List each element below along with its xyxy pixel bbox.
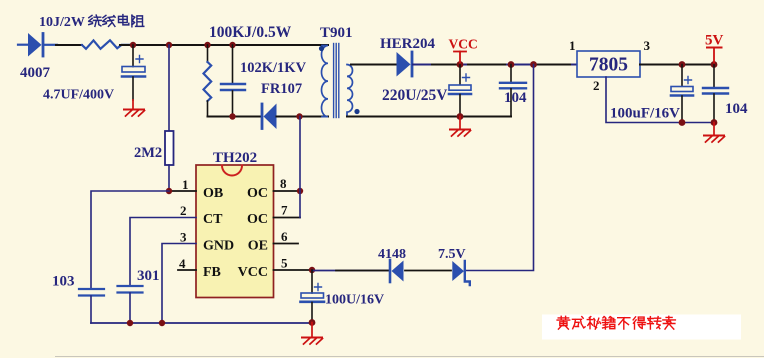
wire pin5 to D4	[312, 270, 389, 272]
wire snubber bottom rail	[208, 116, 262, 118]
ground (C3)	[450, 117, 471, 137]
wire D3 cathode to VCC rail	[413, 64, 577, 66]
svg-text:GND: GND	[203, 239, 234, 254]
IC U1 TH202	[196, 165, 274, 298]
capacitor C6 104	[703, 88, 728, 94]
svg-text:301: 301	[137, 268, 160, 284]
T901 secondary winding	[347, 65, 353, 117]
wire 2M2 bottom lead to pin1 node	[168, 165, 170, 191]
wire pin7 stub	[274, 217, 301, 219]
VCC symbol	[449, 37, 478, 65]
wire main rectified rail to transformer primary top	[120, 44, 328, 46]
svg-text:6: 6	[281, 229, 288, 244]
svg-text:HER204: HER204	[380, 36, 436, 52]
svg-text:TH202: TH202	[213, 150, 257, 166]
capacitor C3 220U/25V electrolytic	[449, 74, 471, 94]
wire pin1 stub	[169, 190, 196, 192]
node junction pin8	[297, 188, 303, 194]
wire secondary top lead to D3	[351, 64, 396, 66]
ground (7805 section)	[704, 123, 725, 143]
wire pin2 to C8	[130, 218, 196, 286]
ground (IC section)	[302, 323, 323, 345]
wire snubber resistor top lead	[207, 45, 209, 62]
svg-text:FB: FB	[203, 265, 221, 280]
wire pin6 stub	[274, 243, 299, 245]
node junction pin5	[309, 267, 315, 273]
resistor R2 2M2 (box)	[165, 131, 174, 165]
node junction C3 ground	[457, 113, 464, 120]
capacitor C1 4.7UF/400V electrolytic	[122, 56, 145, 77]
wire C9 top lead	[311, 270, 313, 293]
wire C1 bottom lead	[132, 77, 134, 100]
wire snubber cap bottom lead	[232, 91, 234, 117]
svg-text:1: 1	[182, 177, 189, 192]
capacitor C9 100U/16V electrolytic	[301, 284, 325, 302]
svg-text:FR107: FR107	[261, 81, 302, 97]
node 5V	[711, 61, 718, 68]
node junction snubber bottom	[229, 113, 235, 119]
svg-text:104: 104	[725, 101, 748, 117]
zener D5 7.5V	[452, 261, 470, 285]
table border line bottom	[55, 356, 764, 358]
watermark box	[542, 315, 741, 340]
svg-text:4.7UF/400V: 4.7UF/400V	[43, 88, 114, 103]
node junction at snubber resistor tap	[204, 42, 210, 48]
wire input left to D1 anode	[18, 44, 29, 46]
svg-text:220U/25V: 220U/25V	[382, 87, 448, 104]
svg-text:7: 7	[281, 203, 288, 218]
wire C3 bottom lead	[459, 95, 461, 117]
diode D3 HER204	[397, 52, 413, 77]
svg-text:4007: 4007	[20, 65, 51, 81]
T901 core	[334, 44, 339, 118]
node junction drain node	[296, 113, 302, 119]
svg-text:8: 8	[280, 176, 287, 191]
capacitor C8 301	[118, 286, 143, 293]
svg-text:100U/16V: 100U/16V	[325, 293, 384, 308]
T901 primary phase dot	[319, 46, 324, 51]
node junction C6 bottom	[711, 119, 718, 126]
svg-text:7.5V: 7.5V	[438, 247, 466, 262]
svg-text:2: 2	[593, 78, 600, 93]
wire pin8 stub	[274, 190, 301, 192]
node junction at snubber cap tap	[229, 42, 235, 48]
wire C6 bottom lead	[713, 94, 715, 123]
svg-text:CT: CT	[203, 212, 223, 227]
svg-text:103: 103	[52, 274, 75, 290]
svg-text:OB: OB	[203, 186, 223, 201]
ground (C1)	[124, 100, 145, 116]
wire pin5 stub	[274, 269, 313, 271]
capacitor C5 100uF/16V electrolytic	[671, 77, 693, 96]
label 黄成秘籍不得转卖 (red watermark, drawn strokes)	[557, 316, 675, 329]
node VCC	[457, 61, 464, 68]
svg-text:100KJ/0.5W: 100KJ/0.5W	[209, 24, 292, 41]
wire C9 bottom lead	[311, 303, 313, 323]
diode D2 FR107	[262, 104, 277, 130]
capacitor C7 103	[79, 289, 104, 296]
wire D4 to D5	[405, 270, 451, 272]
5V symbol	[705, 33, 724, 65]
svg-text:100uF/16V: 100uF/16V	[610, 106, 680, 122]
capacitor C2 102K/1KV	[221, 84, 245, 90]
svg-text:2M2: 2M2	[134, 145, 162, 161]
node junction zener feed tap	[530, 61, 537, 68]
svg-text:VCC: VCC	[449, 37, 478, 52]
T901 secondary phase dot	[354, 109, 359, 114]
wire pin3 to bottom rail	[162, 244, 196, 324]
wire C5 bottom lead	[681, 96, 683, 123]
diode D4 4148	[390, 260, 404, 282]
svg-text:10J/2W: 10J/2W	[39, 15, 85, 30]
svg-text:4: 4	[179, 256, 186, 271]
svg-text:4148: 4148	[378, 247, 406, 262]
capacitor C4 104	[500, 83, 526, 89]
wire snubber cap top lead	[232, 45, 234, 83]
wire zener feed vertical	[466, 65, 534, 271]
wire C5 top lead	[681, 65, 683, 87]
wire pin4 stub	[178, 269, 196, 271]
svg-text:OC: OC	[247, 212, 268, 227]
wire 2M2 top lead	[168, 45, 170, 131]
U1 notch	[222, 166, 242, 176]
svg-text:T901: T901	[320, 25, 353, 41]
wire C8 bottom lead	[129, 293, 131, 323]
svg-text:5V: 5V	[705, 33, 724, 49]
node junction pin1	[166, 188, 172, 194]
wire snubber resistor bottom lead	[207, 101, 209, 117]
node junction C5 tap	[679, 61, 686, 68]
svg-text:VCC: VCC	[238, 265, 268, 280]
node junction at C1 tap	[130, 42, 136, 48]
svg-text:3: 3	[644, 38, 651, 53]
wire bottom rail	[91, 322, 312, 324]
regulator U2 7805	[577, 51, 640, 77]
wire C3 top lead	[459, 65, 461, 85]
node junction C8 bottom	[127, 320, 133, 326]
wire secondary bottom lead / output ground rail	[347, 116, 511, 118]
svg-text:1: 1	[569, 38, 576, 53]
node junction C4 tap	[508, 61, 515, 68]
node junction pin3 bottom	[159, 320, 165, 326]
wire C1 top lead	[132, 45, 134, 67]
label 绕线电阻 (wirewound resistor, drawn strokes)	[89, 15, 144, 27]
T901 primary winding	[321, 46, 328, 117]
node junction at 2M2 tap	[166, 42, 172, 48]
svg-text:OC: OC	[247, 186, 268, 201]
svg-text:104: 104	[504, 90, 527, 106]
wire C4 top lead	[510, 65, 512, 83]
svg-text:7805: 7805	[589, 55, 628, 76]
svg-text:OE: OE	[248, 239, 268, 254]
resistor R3 100KJ/0.5W (zigzag vertical)	[204, 62, 212, 101]
wire D1 cathode to R1	[44, 44, 57, 46]
wire 7805 output rail	[640, 64, 714, 66]
node junction C5 bottom	[679, 119, 686, 126]
diode 4007	[28, 33, 43, 57]
wire pin1 to C7	[91, 191, 169, 288]
svg-text:5: 5	[281, 256, 288, 271]
resistor R1 10J/2W (zigzag)	[82, 40, 131, 49]
svg-text:2: 2	[180, 203, 187, 218]
wire C7 bottom lead	[90, 296, 92, 323]
wire FR107 anode to primary bottom	[277, 116, 329, 118]
wire drain vertical to pins 7,8	[299, 117, 301, 218]
wire C6 top lead	[713, 65, 715, 88]
node junction C9 bottom	[309, 319, 316, 326]
wire C4 bottom lead	[510, 89, 512, 117]
svg-text:102K/1KV: 102K/1KV	[240, 60, 307, 76]
svg-text:3: 3	[180, 230, 187, 245]
wire 7805 gnd pin 2 down and along	[606, 77, 714, 123]
transformer T901	[319, 44, 360, 118]
